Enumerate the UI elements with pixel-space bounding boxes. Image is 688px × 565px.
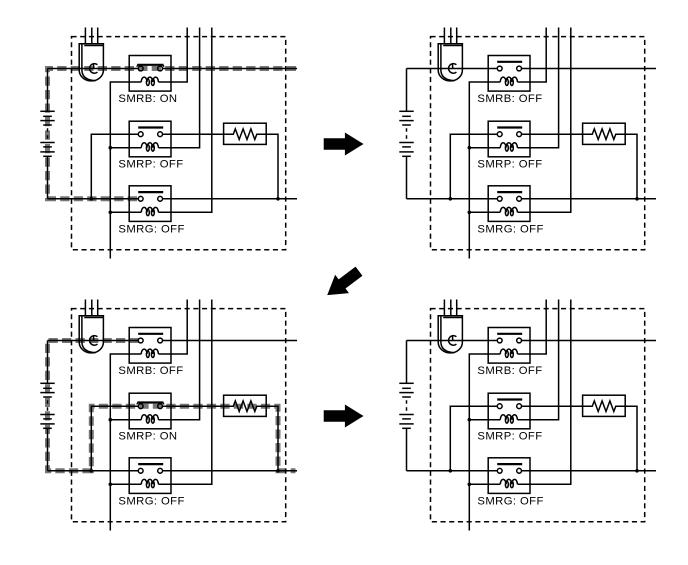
svg-text:SMRG: OFF: SMRG: OFF bbox=[477, 223, 543, 235]
svg-text:SMRB: OFF: SMRB: OFF bbox=[477, 93, 542, 105]
svg-text:SMRG: OFF: SMRG: OFF bbox=[118, 223, 184, 235]
svg-text:SMRP: ON: SMRP: ON bbox=[118, 431, 177, 443]
svg-text:SMRG: OFF: SMRG: OFF bbox=[118, 495, 184, 507]
svg-text:SMRB: OFF: SMRB: OFF bbox=[118, 365, 183, 377]
svg-text:SMRP: OFF: SMRP: OFF bbox=[477, 431, 542, 443]
svg-text:SMRB: ON: SMRB: ON bbox=[118, 93, 177, 105]
svg-text:SMRB: OFF: SMRB: OFF bbox=[477, 365, 542, 377]
svg-text:SMRP: OFF: SMRP: OFF bbox=[118, 159, 183, 171]
svg-text:SMRG: OFF: SMRG: OFF bbox=[477, 495, 543, 507]
svg-text:SMRP: OFF: SMRP: OFF bbox=[477, 159, 542, 171]
